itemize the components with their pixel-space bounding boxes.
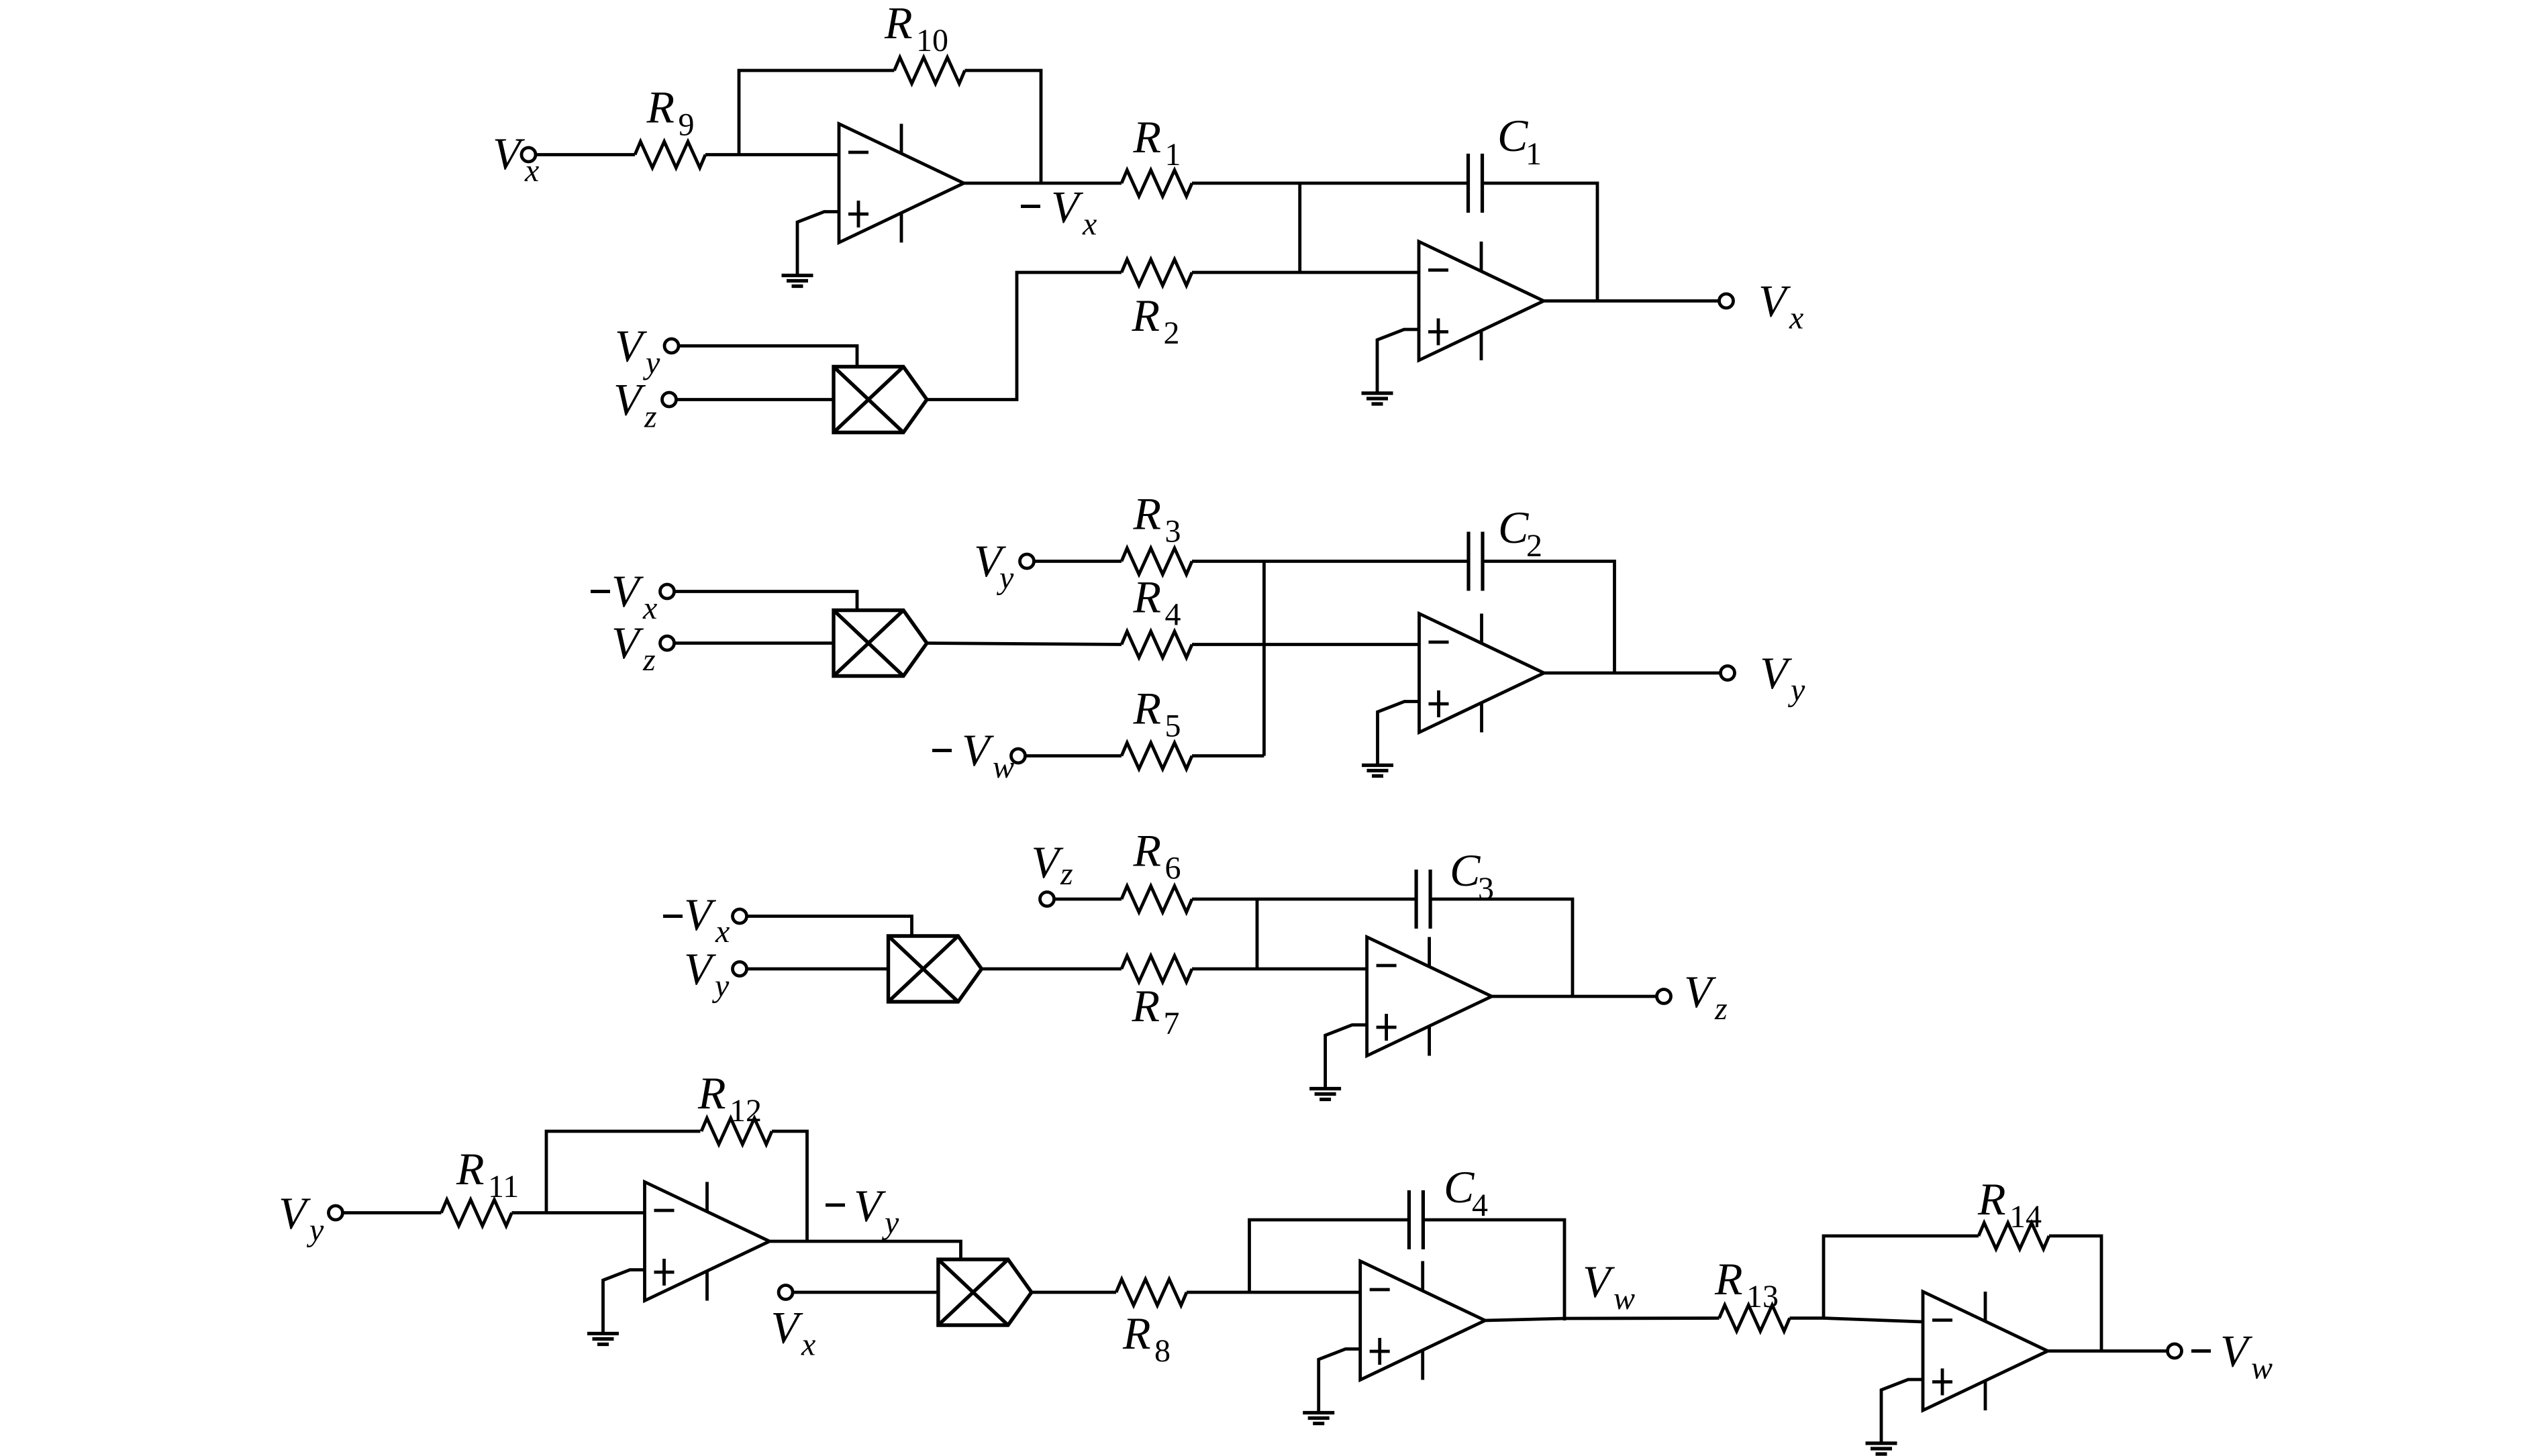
label V_y input block2: [974, 535, 1014, 596]
wire U4 ground lead: [1326, 1025, 1367, 1089]
svg-text:11: 11: [488, 1169, 519, 1204]
label -V_x input block3: [684, 889, 730, 949]
svg-text:8: 8: [1154, 1333, 1171, 1369]
wire -Vx3 to multiplier top: [747, 917, 912, 937]
svg-text:C: C: [1497, 110, 1528, 161]
svg-text:C: C: [1498, 502, 1529, 553]
svg-text:3: 3: [1478, 871, 1494, 906]
svg-text:y: y: [1787, 672, 1805, 708]
svg-text:y: y: [306, 1212, 324, 1248]
wire U1 ground lead: [797, 212, 839, 276]
label V_z input block1: [613, 374, 657, 435]
capacitor C4: [1409, 1190, 1423, 1249]
label R13: [1714, 1253, 1779, 1314]
wire C4 to output corner: [1424, 1220, 1565, 1320]
svg-text:y: y: [711, 968, 730, 1004]
svg-text:x: x: [715, 914, 730, 949]
svg-text:9: 9: [679, 107, 695, 143]
svg-text:z: z: [1714, 991, 1728, 1027]
capacitor C1: [1469, 154, 1483, 213]
node terminal Vz input block3: [1040, 892, 1054, 906]
resistor R9: [635, 142, 705, 168]
wire M1 out up to R2: [927, 272, 1122, 400]
resistor R6: [1122, 886, 1192, 913]
resistor R13: [1720, 1305, 1790, 1331]
wire junction up to R12: [546, 1131, 701, 1213]
label -V_w output: [2220, 1326, 2273, 1386]
label minus of -Vw input: [932, 749, 952, 752]
wire Vx4 to multiplier: [793, 1291, 938, 1294]
svg-text:z: z: [1060, 856, 1073, 892]
label R10: [884, 0, 948, 58]
label V_x input block4: [771, 1302, 816, 1363]
node terminal -Vw output: [2168, 1344, 2182, 1358]
label V_z output: [1684, 966, 1728, 1027]
svg-text:1: 1: [1526, 136, 1542, 172]
ground U4: [1309, 1089, 1341, 1100]
wire U3 out to terminal: [1544, 672, 1721, 675]
svg-text:R: R: [456, 1143, 485, 1194]
wire U1 out to R1: [964, 182, 1122, 185]
wire U6 ground lead: [1319, 1349, 1360, 1413]
wire R6 to C3: [1192, 898, 1416, 901]
resistor R8: [1116, 1280, 1187, 1306]
svg-text:1: 1: [1165, 137, 1181, 172]
label V_y input block3: [684, 943, 730, 1004]
wire summing junction vertical block2: [1262, 562, 1266, 756]
svg-text:12: 12: [730, 1093, 762, 1129]
wire Vz1 to multiplier: [677, 398, 834, 401]
wire Vz3 to R6: [1054, 898, 1122, 901]
ground U5: [587, 1334, 619, 1345]
svg-text:7: 7: [1164, 1006, 1180, 1041]
capacitor C2: [1469, 532, 1483, 591]
svg-text:R: R: [1122, 1308, 1151, 1359]
label minus of -V_x node: [1021, 205, 1040, 208]
svg-text:R: R: [1133, 572, 1162, 623]
svg-text:w: w: [1613, 1281, 1635, 1316]
svg-text:4: 4: [1165, 597, 1181, 633]
label C1: [1497, 110, 1542, 172]
svg-text:R: R: [1132, 290, 1160, 341]
node terminal -Vx input block3: [733, 909, 747, 923]
node terminal Vx output: [1720, 294, 1734, 308]
label R4: [1133, 572, 1181, 633]
node terminal Vy output: [1721, 666, 1735, 680]
label R2: [1132, 290, 1180, 351]
svg-text:2: 2: [1164, 315, 1180, 351]
label R12: [697, 1068, 762, 1129]
node terminal Vy input block3: [733, 962, 747, 976]
label R8: [1122, 1308, 1171, 1369]
resistor R1: [1122, 170, 1192, 197]
resistor R2: [1122, 260, 1192, 286]
multiplier M4: [938, 1259, 1032, 1325]
svg-text:R: R: [1977, 1174, 2006, 1225]
label V_z input block2: [611, 617, 656, 678]
wire junction up to C4: [1250, 1220, 1409, 1292]
svg-text:R: R: [697, 1068, 726, 1119]
wire R9 to U1 minus: [705, 153, 839, 156]
node terminal Vz input block1: [662, 393, 677, 407]
resistor R10: [895, 58, 965, 84]
label -V_w input: [962, 725, 1014, 785]
wire node N1 down to R2 line: [1298, 183, 1301, 272]
wire U4 out to terminal: [1492, 995, 1657, 998]
wire -Vw to R5: [1026, 754, 1122, 758]
wire junction up to R10: [739, 70, 895, 155]
wire U7 out to terminal: [2048, 1349, 2168, 1353]
svg-text:x: x: [524, 153, 539, 189]
wire U2 out to terminal: [1544, 299, 1720, 303]
label R9: [646, 82, 695, 143]
label V_x input: [493, 128, 539, 189]
wire summing junction vertical block3: [1256, 899, 1259, 969]
svg-text:y: y: [642, 346, 660, 381]
wire R3 to C2: [1192, 560, 1469, 563]
svg-text:C: C: [1444, 1161, 1475, 1212]
svg-text:4: 4: [1472, 1188, 1488, 1223]
label -V_y node: [854, 1180, 899, 1241]
label R1: [1133, 111, 1181, 172]
wire Vz2 to multiplier: [675, 641, 834, 645]
node terminal Vz output: [1657, 990, 1671, 1004]
svg-text:R: R: [1133, 683, 1162, 734]
op-amp U5: [645, 1182, 770, 1301]
label C3: [1450, 845, 1494, 906]
op-amp U4: [1367, 937, 1492, 1056]
svg-text:R: R: [1133, 825, 1162, 876]
multiplier M2: [834, 611, 927, 676]
wire R13 to U7 minus: [1790, 1318, 1924, 1322]
label R11: [456, 1143, 519, 1204]
wire R14 to U7 output: [2049, 1236, 2101, 1351]
svg-text:R: R: [884, 0, 913, 48]
label R3: [1133, 488, 1181, 550]
resistor R7: [1122, 956, 1192, 982]
svg-text:R: R: [1133, 488, 1162, 539]
label V_y input block4: [279, 1188, 324, 1248]
wire Vy2 to R3: [1034, 560, 1122, 563]
wire U6 out to R13: [1485, 1318, 1720, 1321]
wire R8 to U6 minus: [1187, 1291, 1360, 1294]
wire R2 to U2 minus: [1192, 271, 1419, 274]
wire C3 to output corner: [1430, 899, 1573, 996]
label minus of -Vx block2: [591, 590, 610, 593]
resistor R4: [1122, 631, 1192, 658]
multiplier M1: [834, 367, 927, 433]
node terminal -Vx input block2: [660, 584, 675, 599]
svg-text:x: x: [801, 1327, 815, 1363]
node terminal -Vw input: [1011, 749, 1026, 763]
svg-text:x: x: [1082, 207, 1097, 242]
svg-text:C: C: [1450, 845, 1481, 896]
op-amp U7: [1923, 1292, 2048, 1410]
wire Vy3 to multiplier: [747, 968, 889, 971]
label -V_x node: [1051, 182, 1097, 242]
svg-text:w: w: [2251, 1351, 2273, 1386]
wire M3 out to R7: [982, 968, 1122, 971]
label C4: [1444, 1161, 1488, 1223]
svg-text:z: z: [642, 642, 656, 678]
op-amp U2: [1419, 242, 1544, 360]
svg-text:y: y: [996, 560, 1014, 596]
node terminal Vx input: [521, 148, 536, 162]
label V_x output: [1758, 276, 1803, 336]
ground U7: [1866, 1443, 1897, 1454]
resistor R11: [442, 1200, 512, 1226]
wire R12 to U5 output: [772, 1131, 807, 1241]
capacitor C3: [1416, 870, 1430, 929]
label C2: [1498, 502, 1542, 564]
op-amp U6: [1360, 1261, 1485, 1380]
svg-text:10: 10: [916, 23, 948, 58]
label minus of -Vx block3: [663, 915, 683, 918]
wire U2 ground lead: [1377, 329, 1419, 393]
svg-text:y: y: [881, 1205, 899, 1241]
multiplier M3: [889, 936, 982, 1002]
label R6: [1133, 825, 1181, 886]
resistor R5: [1122, 743, 1192, 769]
svg-text:x: x: [1789, 301, 1803, 336]
label V_w node: [1583, 1256, 1635, 1316]
svg-text:R: R: [1132, 980, 1160, 1031]
node terminal Vz input block2: [660, 636, 675, 650]
ground U2: [1362, 393, 1393, 404]
wire Vy1 to multiplier top: [679, 346, 858, 367]
wire M4 out to R8: [1032, 1291, 1116, 1294]
resistor R3: [1122, 548, 1192, 574]
op-amp U3: [1420, 614, 1544, 733]
svg-text:z: z: [644, 399, 657, 435]
node terminal Vy input block4: [329, 1206, 343, 1220]
svg-text:R: R: [1133, 111, 1162, 162]
wire Vx to R9: [536, 153, 635, 156]
wire Vy4 to R11: [343, 1211, 442, 1214]
wire C1 to output corner: [1483, 183, 1598, 301]
node terminal Vy input block1: [664, 339, 679, 353]
ground U3: [1362, 766, 1393, 776]
resistor R12: [701, 1119, 772, 1145]
wire R1 to C1: [1192, 182, 1469, 185]
ground U1: [782, 276, 813, 287]
label R14: [1977, 1174, 2042, 1235]
wire U7 ground lead: [1881, 1380, 1923, 1443]
svg-text:R: R: [1714, 1253, 1743, 1304]
label R5: [1133, 683, 1181, 744]
svg-text:R: R: [646, 82, 675, 133]
label minus of -V_y node: [826, 1204, 845, 1207]
wire U3 ground lead: [1378, 702, 1420, 766]
ground U6: [1303, 1413, 1334, 1424]
svg-text:14: 14: [2009, 1199, 2042, 1235]
wire -Vx2 to multiplier top: [675, 592, 857, 611]
wire C2 to output corner: [1483, 562, 1615, 674]
wire R7 to U4 minus: [1192, 968, 1367, 971]
label V_z input block3: [1032, 837, 1074, 892]
wire R5 to junction: [1192, 754, 1264, 758]
label minus of -Vw output: [2191, 1349, 2211, 1353]
label R7: [1132, 980, 1180, 1041]
wire R10 to output node: [965, 70, 1042, 183]
resistor R14: [1979, 1223, 2049, 1249]
wire M2 out to R4: [927, 643, 1122, 645]
label V_y input block1: [615, 321, 660, 381]
label -V_x input block2: [611, 566, 657, 626]
wire R11 to U5 minus: [512, 1211, 645, 1214]
svg-text:x: x: [642, 590, 657, 626]
wire U5 ground lead: [603, 1270, 645, 1334]
svg-text:2: 2: [1526, 528, 1542, 564]
wire R4 to U3 minus: [1192, 643, 1420, 646]
svg-text:5: 5: [1165, 709, 1181, 744]
label V_y output: [1760, 647, 1805, 708]
node terminal Vy input block2: [1020, 554, 1034, 568]
node terminal Vx input block4: [779, 1286, 793, 1300]
wire junction up to R14: [1824, 1236, 1979, 1318]
svg-text:6: 6: [1165, 851, 1181, 886]
svg-text:3: 3: [1165, 514, 1181, 550]
wire U5 out to multiplier top: [770, 1241, 961, 1259]
svg-text:w: w: [993, 749, 1014, 785]
svg-text:13: 13: [1746, 1279, 1779, 1314]
op-amp U1: [839, 124, 964, 243]
